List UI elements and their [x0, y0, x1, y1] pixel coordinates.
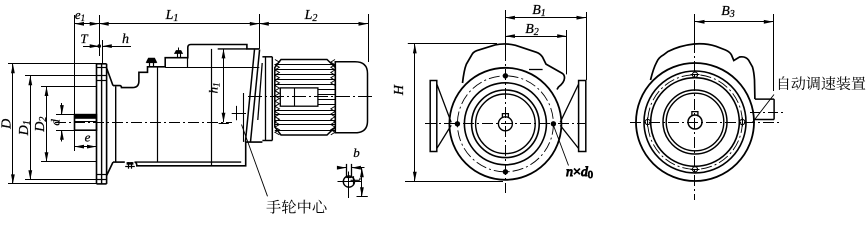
svg-text:b: b	[353, 145, 360, 160]
svg-text:e: e	[85, 130, 91, 145]
svg-text:H: H	[392, 84, 407, 96]
svg-text:T: T	[80, 31, 88, 46]
svg-text:D: D	[0, 119, 14, 130]
svg-text:h: h	[122, 32, 129, 47]
